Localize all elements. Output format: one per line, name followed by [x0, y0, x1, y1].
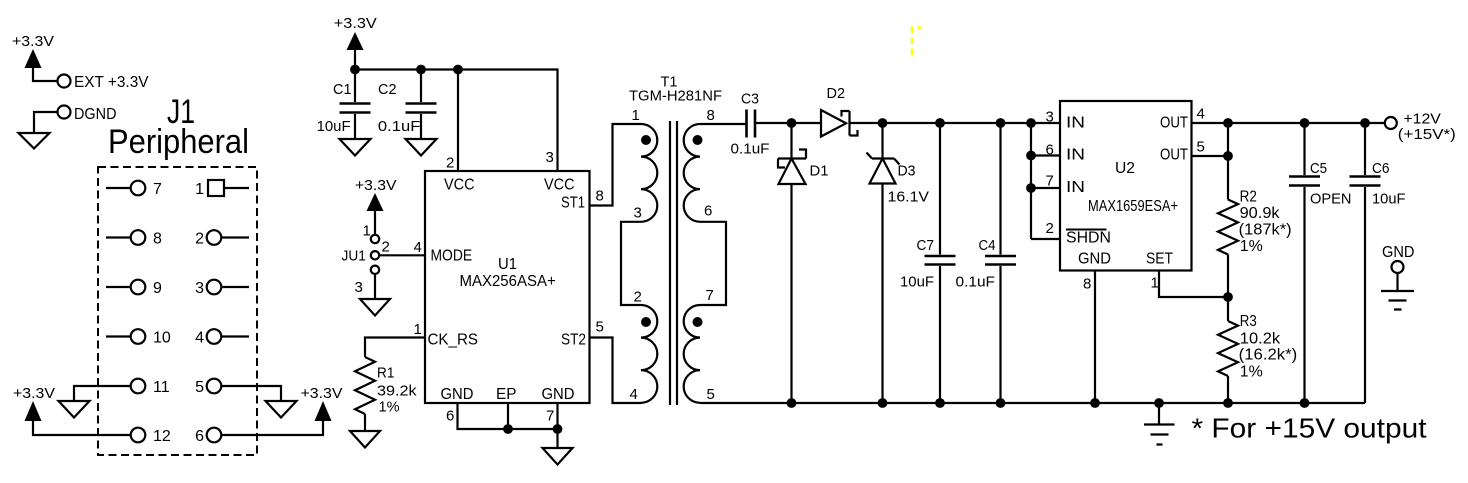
wire to VCC pin2 — [457, 70, 459, 172]
resistor R2 — [1218, 189, 1292, 256]
svg-text:16.1V: 16.1V — [888, 189, 930, 206]
svg-text:10uF: 10uF — [317, 118, 351, 135]
svg-text:6: 6 — [704, 203, 712, 220]
svg-text:10uF: 10uF — [1372, 191, 1406, 208]
pin 1 CK_RS wire — [365, 321, 425, 357]
svg-text:2: 2 — [382, 239, 390, 256]
pin 5 with ground — [195, 379, 296, 418]
wire C3 to D2 — [756, 122, 821, 124]
transformer T1 labels — [629, 74, 722, 105]
svg-text:3: 3 — [355, 279, 363, 296]
svg-text:GND: GND — [1382, 244, 1415, 261]
pin 6 with +3.3V — [195, 385, 342, 445]
svg-text:(187k*): (187k*) — [1239, 222, 1292, 239]
svg-text:8: 8 — [596, 188, 604, 205]
svg-text:3: 3 — [634, 205, 642, 222]
svg-text:8: 8 — [1083, 276, 1091, 293]
svg-text:OUT: OUT — [1160, 115, 1188, 132]
svg-text:D3: D3 — [898, 163, 916, 180]
svg-text:0.1uF: 0.1uF — [378, 118, 421, 135]
bottom rail — [700, 402, 1365, 404]
resistor R1 — [355, 357, 417, 416]
capacitor C7 — [900, 118, 956, 408]
svg-text:CK_RS: CK_RS — [428, 332, 479, 349]
svg-text:9: 9 — [153, 280, 162, 297]
svg-text:R2: R2 — [1240, 189, 1257, 206]
svg-text:GND: GND — [542, 386, 575, 403]
svg-text:C1: C1 — [333, 81, 352, 98]
transformer T1 primary winding 1-3 — [632, 107, 658, 222]
svg-text:* For +15V output: * For +15V output — [1192, 413, 1427, 444]
capacitor C4 — [956, 118, 1017, 408]
ground below JU1 — [360, 273, 390, 316]
svg-text:D2: D2 — [827, 85, 846, 102]
pin 8 — [106, 230, 162, 247]
svg-text:GND: GND — [1078, 251, 1111, 268]
svg-text:GND: GND — [441, 386, 474, 403]
svg-text:6: 6 — [446, 408, 454, 425]
pin 11 with ground — [59, 379, 170, 418]
pin 1 (square) — [195, 180, 249, 198]
svg-text:+3.3V: +3.3V — [13, 385, 55, 402]
node A junction — [787, 118, 797, 128]
wire T1 pin8 to C3 — [700, 123, 746, 125]
svg-text:OUT: OUT — [1160, 147, 1188, 164]
U2 pin numbers — [1046, 106, 1205, 293]
svg-text:+3.3V: +3.3V — [334, 15, 377, 32]
svg-text:3: 3 — [195, 280, 204, 297]
svg-text:7: 7 — [153, 181, 162, 198]
capacitor C1 — [317, 70, 371, 156]
transformer T1 secondary winding 8-6 — [684, 107, 715, 222]
svg-text:3: 3 — [1046, 109, 1054, 126]
svg-text:2: 2 — [634, 289, 642, 306]
capacitor C3 — [731, 91, 770, 158]
capacitor C2 — [378, 70, 437, 156]
svg-text:1%: 1% — [1240, 364, 1263, 381]
pin 4 — [195, 329, 249, 346]
svg-text:EP: EP — [496, 386, 517, 403]
svg-text:MAX256ASA+: MAX256ASA+ — [460, 273, 556, 290]
svg-text:4: 4 — [414, 239, 422, 256]
node junctions on vcc rail — [350, 65, 360, 75]
svg-text:U1: U1 — [498, 256, 517, 273]
svg-text:7: 7 — [1046, 173, 1054, 190]
node GND output terminal — [1381, 244, 1415, 310]
svg-text:MAX1659ESA+: MAX1659ESA+ — [1088, 198, 1178, 215]
svg-text:1: 1 — [363, 223, 371, 240]
transformer core — [670, 121, 677, 405]
svg-text:8: 8 — [153, 231, 162, 248]
power +3.3V top-left — [12, 33, 58, 81]
svg-text:+12V: +12V — [1403, 111, 1441, 128]
svg-text:IN: IN — [1066, 115, 1085, 132]
svg-text:2: 2 — [446, 155, 454, 172]
node DGND terminal — [19, 106, 117, 149]
yellow artifact — [912, 28, 921, 56]
resistor R3 — [1218, 313, 1297, 381]
svg-text:0.1uF: 0.1uF — [731, 141, 770, 158]
jumper JU1 — [342, 223, 390, 297]
svg-text:TGM-H281NF: TGM-H281NF — [629, 88, 722, 105]
transformer T1 primary winding 2-4 — [630, 289, 658, 404]
wire JU1 pin2 to MODE — [379, 254, 425, 256]
svg-text:R1: R1 — [377, 365, 394, 382]
svg-text:1: 1 — [1151, 275, 1159, 292]
svg-text:C4: C4 — [979, 237, 996, 254]
svg-text:ST1: ST1 — [561, 195, 585, 212]
svg-text:7: 7 — [706, 287, 714, 304]
wire rail D3 to U2 — [883, 122, 1061, 124]
svg-text:SHDN: SHDN — [1066, 230, 1111, 247]
svg-text:5: 5 — [707, 386, 715, 403]
svg-text:5: 5 — [1197, 139, 1205, 156]
svg-text:(+15V*): (+15V*) — [1398, 126, 1456, 143]
svg-text:10uF: 10uF — [900, 274, 934, 291]
transformer T1 secondary winding 7-5 — [684, 287, 715, 403]
svg-text:0.1uF: 0.1uF — [956, 274, 996, 291]
svg-text:+3.3V: +3.3V — [355, 177, 397, 194]
regulator U2 MAX1659ESA+ — [1060, 101, 1192, 271]
svg-text:IN: IN — [1066, 147, 1085, 164]
svg-text:Peripheral: Peripheral — [108, 123, 249, 161]
svg-text:5: 5 — [195, 379, 204, 396]
earth ground on bottom rail — [1144, 398, 1175, 444]
capacitor C6 — [1350, 118, 1406, 403]
svg-text:1: 1 — [414, 321, 422, 338]
diode D1 (schottky, to ground) — [778, 123, 829, 408]
pin 2 — [195, 230, 249, 247]
svg-text:(16.2k*): (16.2k*) — [1239, 347, 1298, 364]
wire SET pin1 — [1159, 271, 1228, 298]
svg-text:39.2k: 39.2k — [377, 383, 417, 400]
svg-text:D1: D1 — [810, 163, 829, 180]
svg-text:OPEN: OPEN — [1310, 191, 1352, 208]
power +3.3V above JU1 — [355, 177, 397, 236]
svg-text:R3: R3 — [1240, 313, 1257, 330]
svg-text:VCC: VCC — [544, 177, 575, 194]
ground below R1 — [350, 414, 380, 448]
svg-text:SET: SET — [1146, 251, 1173, 268]
connector J1 title — [108, 93, 249, 161]
svg-text:JU1: JU1 — [342, 248, 366, 265]
wire T1 pin3 to pin2 — [621, 222, 641, 305]
svg-text:6: 6 — [1046, 142, 1054, 159]
svg-text:4: 4 — [1197, 106, 1205, 123]
svg-text:C5: C5 — [1310, 160, 1327, 177]
node EXT +3.3V terminal — [58, 74, 150, 91]
svg-text:VCC: VCC — [444, 177, 475, 194]
wire ST2 pin5 to T1 pin4 — [590, 319, 642, 404]
svg-text:C3: C3 — [741, 91, 759, 108]
capacitor C5 — [1289, 118, 1352, 408]
svg-text:4: 4 — [630, 386, 638, 403]
pin 3 — [195, 280, 249, 297]
svg-text:4: 4 — [195, 330, 204, 347]
svg-text:C7: C7 — [917, 237, 935, 254]
svg-text:EXT +3.3V: EXT +3.3V — [74, 74, 149, 91]
pin 7 — [106, 181, 162, 198]
svg-text:12: 12 — [153, 428, 171, 445]
pin 9 — [106, 280, 162, 297]
svg-text:U2: U2 — [1115, 160, 1135, 177]
wire OUT5 to R2 — [1192, 123, 1229, 200]
pin 12 with +3.3V — [13, 385, 171, 445]
svg-text:5: 5 — [596, 319, 604, 336]
wire U2 input tie pins 3/6/7 — [1026, 118, 1060, 239]
svg-text:+3.3V: +3.3V — [12, 33, 54, 50]
svg-text:1%: 1% — [379, 399, 400, 416]
svg-text:10.2k: 10.2k — [1240, 331, 1281, 348]
wire GND pin8 — [1094, 271, 1096, 404]
svg-text:C6: C6 — [1372, 160, 1390, 177]
svg-text:1%: 1% — [1240, 238, 1263, 255]
diode D2 (schottky, series) — [821, 85, 883, 137]
zener D3 16.1V — [867, 123, 930, 408]
svg-text:1: 1 — [195, 181, 204, 198]
wire T1 pin6 to pin7 — [700, 222, 726, 305]
svg-text:ST2: ST2 — [561, 332, 586, 349]
node +12V output terminal — [1385, 111, 1456, 144]
svg-text:C2: C2 — [378, 81, 397, 98]
svg-text:MODE: MODE — [431, 248, 473, 265]
svg-text:7: 7 — [546, 408, 554, 425]
U1 ground bus pins 6 EP 7 — [446, 403, 573, 465]
svg-text:10: 10 — [153, 330, 171, 347]
svg-text:6: 6 — [195, 428, 204, 445]
wire vcc rail — [355, 70, 558, 172]
svg-text:3: 3 — [546, 149, 554, 166]
svg-text:1: 1 — [632, 107, 640, 124]
pin 10 — [106, 329, 171, 346]
svg-text:90.9k: 90.9k — [1240, 205, 1280, 222]
wire ST1 pin8 to T1 pin1 — [590, 124, 642, 206]
wire OUT4 rail to +12V — [1192, 122, 1385, 124]
svg-text:11: 11 — [153, 379, 170, 396]
svg-text:+3.3V: +3.3V — [301, 385, 343, 402]
op-amp U1 MAX256ASA+ — [425, 171, 590, 403]
svg-text:IN: IN — [1066, 179, 1085, 196]
node B junction — [878, 118, 888, 128]
svg-text:2: 2 — [1046, 220, 1054, 237]
power +3.3V above C1 — [334, 15, 377, 70]
svg-text:DGND: DGND — [74, 106, 117, 123]
svg-text:8: 8 — [707, 107, 715, 124]
connector J1 body (dashed) — [98, 167, 257, 455]
svg-text:2: 2 — [195, 231, 204, 248]
